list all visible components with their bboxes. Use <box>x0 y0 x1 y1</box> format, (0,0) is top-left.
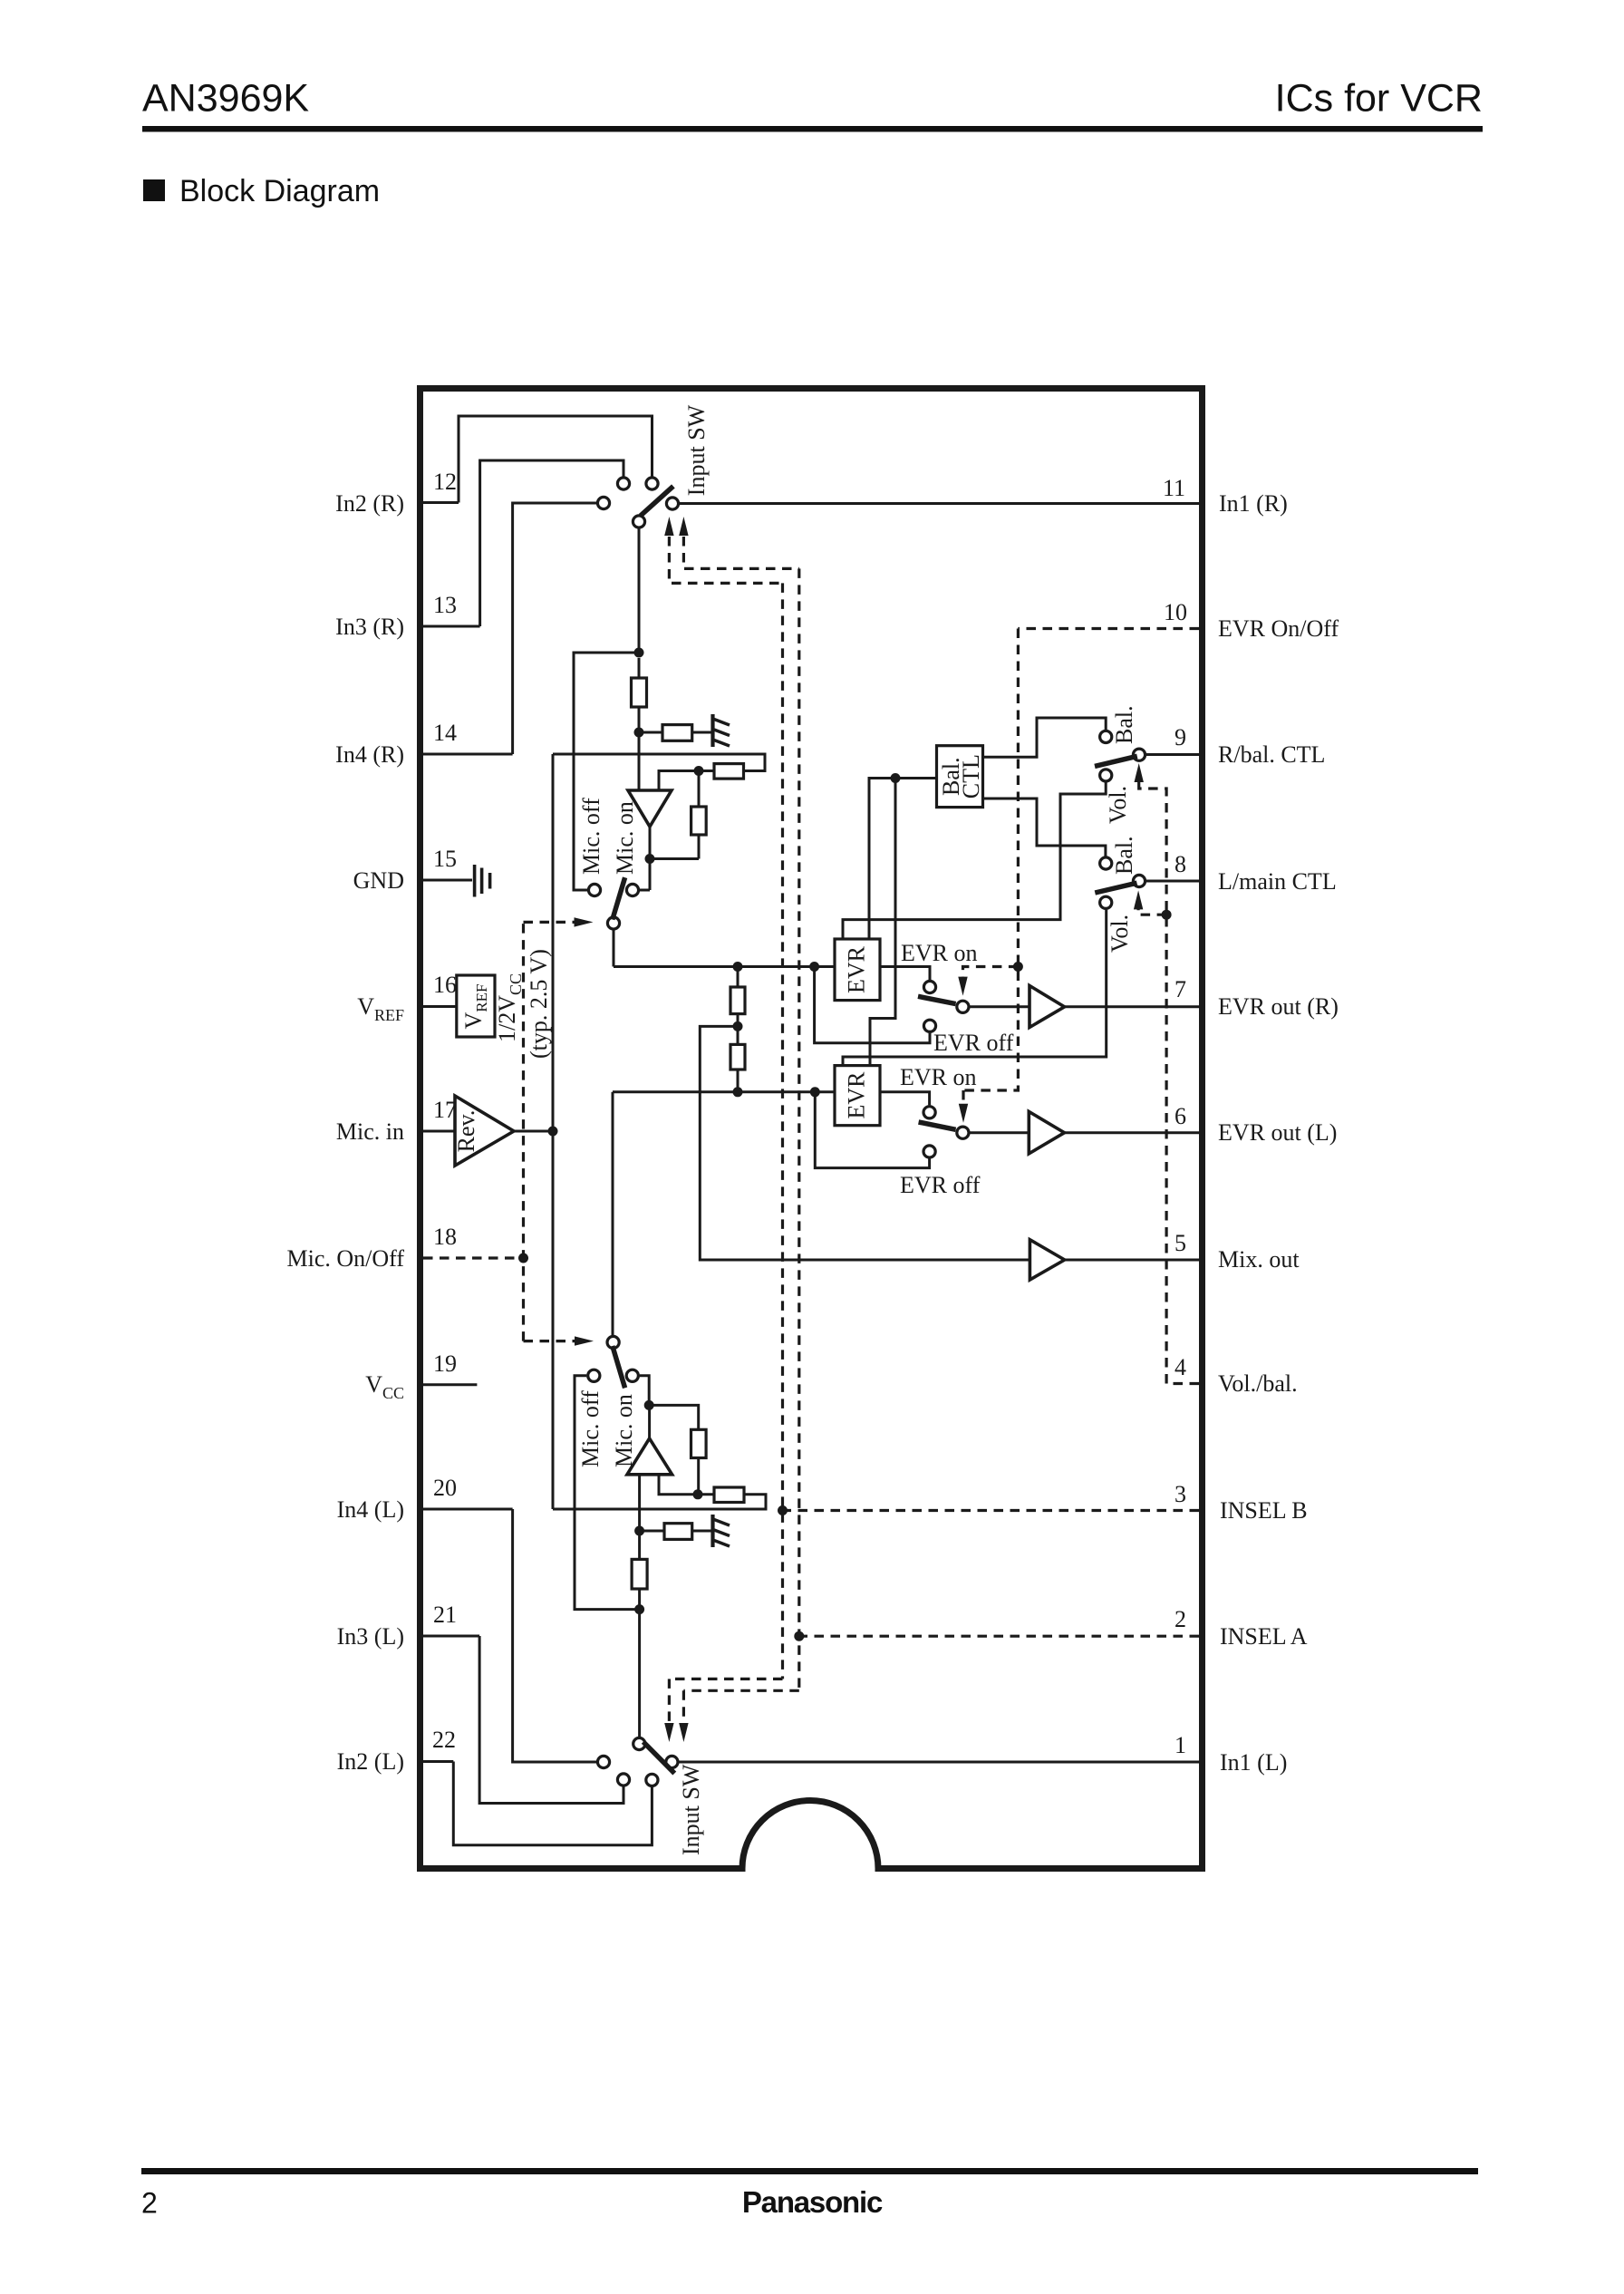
dashed INSEL control arrow B (lower) <box>668 1679 671 1723</box>
dashed INSEL control arrow A (upper) <box>683 537 798 568</box>
pin 8 L/main CTL wire <box>1146 880 1199 883</box>
wire EVR (R) output to switch <box>880 967 930 981</box>
wire node to feedback resistor lower <box>698 771 701 808</box>
svg-text:13: 13 <box>433 592 457 618</box>
arrowhead Vol/bal control pin9 <box>1135 763 1144 782</box>
svg-text:9: 9 <box>1174 724 1186 750</box>
svg-text:In4 (L): In4 (L) <box>337 1496 404 1523</box>
wire pin20 riser to lower input SW left contact <box>513 1509 596 1762</box>
resistor mic-L series input <box>632 1559 647 1589</box>
svg-text:6: 6 <box>1174 1103 1186 1129</box>
node Rev output junction <box>548 1127 558 1137</box>
svg-text:INSEL A: INSEL A <box>1220 1623 1308 1650</box>
wire resistor to ground (L) <box>692 1530 712 1533</box>
dashed INSEL B vertical bus <box>781 583 784 1679</box>
svg-text:L/main CTL: L/main CTL <box>1218 868 1337 895</box>
wire tap to ground resistor <box>639 731 662 734</box>
svg-text:20: 20 <box>433 1475 457 1501</box>
wire Bal.CTL upper output to pin9 Bal contact <box>983 718 1107 757</box>
pin 17 Mic.in stub wire <box>423 1130 455 1133</box>
Vol. rotated label (pin9) <box>1105 786 1131 824</box>
wire node to amp inverting input (L) <box>659 1475 698 1495</box>
L/main switch Vol contact <box>1100 896 1112 908</box>
node mic-R amp output <box>645 854 655 864</box>
node input bus / mic-R junction <box>634 648 644 658</box>
svg-text:Panasonic: Panasonic <box>742 2185 883 2219</box>
Mic.off rotated label (L) <box>577 1390 604 1467</box>
svg-text:16: 16 <box>433 972 457 998</box>
Mic.on rotated label (L) <box>611 1394 637 1467</box>
svg-text:EVR out (R): EVR out (R) <box>1218 993 1339 1020</box>
node pin18 dashed junction <box>518 1253 528 1263</box>
wire EVR switch (R) common to buffer <box>970 1005 1029 1008</box>
wire EVR (L) output to switch <box>880 1092 930 1106</box>
svg-text:EVR on: EVR on <box>900 1064 977 1090</box>
svg-text:EVR: EVR <box>844 1071 870 1119</box>
wire pin12 riser to input SW top-right contact <box>459 416 652 503</box>
wire pin14 riser to input SW left contact <box>513 503 596 754</box>
resistor mic-R series input <box>638 658 641 678</box>
wire In4 bus to mic-R feedback network <box>553 754 765 771</box>
wire EVR (L) input rail <box>613 1090 835 1093</box>
svg-text:VCC: VCC <box>365 1371 404 1402</box>
mic switch (R) lever <box>613 877 625 919</box>
pin 22 In2(L) stub wire <box>423 1760 453 1763</box>
Bal. rotated label (pin8) <box>1111 836 1137 875</box>
svg-text:3: 3 <box>1174 1481 1186 1507</box>
EVR switch (L) on contact <box>923 1107 935 1118</box>
svg-text:GND: GND <box>353 867 404 894</box>
node mix divider mid <box>733 1021 743 1031</box>
dashed Vol./bal. control bus <box>1139 781 1166 1384</box>
pin 5 Mix.out wire <box>1065 1259 1199 1262</box>
resistor mix divider lower <box>730 1044 745 1070</box>
Bal.CTL block <box>937 746 983 808</box>
svg-text:VREF: VREF <box>357 993 404 1024</box>
svg-text:EVR: EVR <box>844 945 870 993</box>
EVR switch (L) lever <box>919 1122 956 1129</box>
wire node to Mic.off branch <box>574 653 639 890</box>
svg-text:Mic. on: Mic. on <box>611 1394 637 1467</box>
wire EVR (R) top tab <box>843 782 1106 939</box>
pin 7 EVR out (R) wire <box>1065 1005 1199 1008</box>
node INSEL B junction <box>778 1505 788 1515</box>
pin 9 R/bal.CTL wire <box>1146 753 1199 756</box>
pin 14 In4(R) stub wire <box>423 753 513 756</box>
footer rule <box>141 2168 1478 2174</box>
node mic-L ground-resistor tap <box>634 1526 644 1536</box>
pin 3 INSEL B dashed wire <box>783 1509 1200 1512</box>
svg-text:4: 4 <box>1174 1354 1186 1380</box>
Mic.on rotated label (R) <box>612 801 638 875</box>
svg-text:14: 14 <box>433 720 457 746</box>
pin 19 VCC stub wire <box>423 1383 477 1386</box>
Rev. amp rotated text <box>453 1110 479 1153</box>
input SW (L) contact to pin20 <box>597 1756 609 1767</box>
wire Mic.off (L) branch <box>575 1376 640 1610</box>
wire EVR-off (R) bypass <box>815 967 930 1043</box>
EVR switch (L) common contact <box>957 1127 969 1138</box>
svg-text:In3 (L): In3 (L) <box>337 1623 404 1650</box>
VREF box rotated text <box>460 984 490 1030</box>
svg-text:R/bal. CTL: R/bal. CTL <box>1218 741 1325 768</box>
resistor mic-R feedback upper <box>714 764 744 779</box>
wire Mic.on (L) to amp output node <box>640 1376 649 1406</box>
mic switch (R) Mic.off contact <box>588 884 600 895</box>
dashed EVR control branch (L) <box>962 1090 964 1104</box>
svg-text:Bal.: Bal. <box>1111 705 1137 744</box>
Vol. rotated label (pin8) <box>1107 915 1133 953</box>
svg-text:EVR on: EVR on <box>901 940 978 966</box>
dashed mic control riser <box>522 922 525 1341</box>
pin 11 In1(R) wire from input SW common <box>680 502 1199 505</box>
EVR switch (R) on contact <box>923 981 935 992</box>
arrowhead mic control (L) <box>575 1336 594 1345</box>
EVR (R) rotated text <box>844 945 870 993</box>
arrowhead mic control (R) <box>575 917 594 926</box>
svg-text:15: 15 <box>433 846 457 872</box>
wire mic-L main input riser <box>638 1475 641 1560</box>
arrowhead EVR control (R) <box>958 977 967 996</box>
L/main switch Bal contact <box>1100 857 1112 869</box>
EVR switch (L) off contact <box>923 1146 935 1157</box>
pin 13 In3(R) stub wire <box>423 625 480 628</box>
svg-text:5: 5 <box>1174 1230 1186 1256</box>
mic switch (R) common contact <box>607 917 619 929</box>
wire resistor to ground <box>692 731 712 734</box>
input SW (L) common contact pin1 <box>666 1756 678 1767</box>
svg-text:Vol.: Vol. <box>1107 915 1133 953</box>
svg-text:2: 2 <box>1174 1606 1186 1632</box>
svg-text:2: 2 <box>141 2187 158 2220</box>
resistor mix divider upper <box>737 967 739 988</box>
svg-text:22: 22 <box>432 1727 456 1753</box>
IC package outline U1 with index notch <box>420 389 1203 1869</box>
svg-text:(typ. 2.5 V): (typ. 2.5 V) <box>526 949 552 1059</box>
pin 18 Mic.On/Off dashed stub <box>423 1256 524 1259</box>
R/bal switch Vol contact <box>1100 770 1112 781</box>
svg-text:Input SW: Input SW <box>683 404 710 496</box>
svg-text:EVR off: EVR off <box>900 1172 981 1198</box>
wire Bal.CTL lower output to pin8 Bal contact <box>983 799 1106 857</box>
rotated annotation (typ. 2.5 V) <box>526 949 552 1059</box>
wire In4 feed riser (vertical bus x=610) <box>552 754 555 1509</box>
svg-text:1/2VCC: 1/2VCC <box>494 973 525 1042</box>
op-amp Rev. microphone reverse amp <box>455 1096 514 1166</box>
svg-text:Input SW: Input SW <box>678 1764 704 1855</box>
resistor mic-L to ground <box>664 1524 692 1540</box>
Bal.CTL rotated text <box>938 754 984 799</box>
svg-text:In4 (R): In4 (R) <box>335 741 404 768</box>
wire pin22 riser to lower input SW contact <box>453 1762 652 1845</box>
dashed EVR control branch (R) <box>963 967 1019 978</box>
input SW (L) lever <box>643 1742 675 1774</box>
node mix divider top <box>733 962 743 972</box>
R/bal switch lever <box>1095 756 1137 766</box>
resistor mic-L feedback lower <box>691 1429 707 1457</box>
arrowhead INSEL A lower <box>679 1723 688 1742</box>
wire pin21 riser to lower input SW contact <box>479 1636 623 1804</box>
ground symbol mic-R <box>713 714 730 747</box>
svg-text:18: 18 <box>433 1224 457 1250</box>
svg-text:CTL: CTL <box>958 754 984 799</box>
mic switch (L) common contact <box>607 1336 619 1348</box>
node mic-L Mic.off junction <box>634 1604 644 1614</box>
wire EVR switch (L) common to buffer <box>970 1131 1029 1134</box>
EVR block (L channel) <box>835 1066 880 1126</box>
svg-text:Mic. off: Mic. off <box>578 798 604 875</box>
dashed mic control arrow (R) <box>524 921 575 924</box>
svg-text:Rev.: Rev. <box>453 1110 479 1153</box>
dashed mic control arrow (L) <box>524 1340 575 1342</box>
input SW (R) contact to pin13 <box>617 478 629 489</box>
ground symbol at pin 15 <box>475 865 490 897</box>
dashed INSEL A lower run <box>683 1689 798 1692</box>
node Bal.CTL rail / EVR(L) branch <box>891 773 901 783</box>
pin 2 INSEL A dashed wire <box>799 1635 1199 1638</box>
pin 20 In4(L) stub wire <box>423 1508 513 1511</box>
arrowhead EVR control (L) <box>959 1104 968 1123</box>
wire input SW pole down to mic node <box>638 529 641 653</box>
pin 16 VREF stub wire <box>423 1005 457 1008</box>
wire amp output down <box>649 827 652 890</box>
svg-text:Mic. on: Mic. on <box>612 801 638 875</box>
svg-text:Mix. out: Mix. out <box>1218 1246 1300 1273</box>
op-amp EVR out (R) buffer <box>1029 986 1065 1028</box>
wire EVR (R) input rail <box>614 965 835 968</box>
dashed INSEL control arrow A (lower) <box>682 1690 685 1723</box>
node INSEL A junction <box>794 1631 804 1641</box>
arrowhead INSEL A upper <box>679 517 688 536</box>
svg-text:EVR out (L): EVR out (L) <box>1218 1119 1337 1146</box>
node EVR-off (L) tap <box>810 1087 820 1097</box>
svg-text:11: 11 <box>1163 475 1185 501</box>
input SW (L) pole contact <box>633 1737 645 1749</box>
node mic-R ground-resistor tap <box>634 728 644 738</box>
svg-text:EVR On/Off: EVR On/Off <box>1218 615 1339 642</box>
input SW (R) contact to pin12 <box>646 478 658 489</box>
VREF regulator box 1/2 Vcc <box>457 975 495 1037</box>
wire branch down to EVR (L) top <box>870 779 895 1066</box>
L/main switch lever <box>1095 883 1136 893</box>
node mic-R feedback top <box>694 766 704 776</box>
svg-text:Mic. On/Off: Mic. On/Off <box>286 1245 404 1272</box>
svg-text:AN3969K: AN3969K <box>142 77 309 121</box>
pin 12 In2(R) stub wire <box>423 501 459 504</box>
svg-text:7: 7 <box>1174 976 1186 1002</box>
svg-text:Vol.: Vol. <box>1105 786 1131 824</box>
svg-text:In1 (R): In1 (R) <box>1219 490 1288 517</box>
svg-text:19: 19 <box>433 1350 457 1377</box>
svg-text:8: 8 <box>1174 851 1186 877</box>
svg-text:1: 1 <box>1174 1732 1186 1758</box>
svg-text:INSEL B: INSEL B <box>1220 1497 1308 1524</box>
EVR switch (R) common contact <box>957 1001 969 1012</box>
pin 10 EVR On/Off dashed wire <box>1018 627 1199 630</box>
input SW (R) pole contact <box>633 516 644 528</box>
svg-text:21: 21 <box>433 1602 457 1628</box>
input SW (R) lever <box>641 486 673 516</box>
svg-text:10: 10 <box>1164 599 1187 625</box>
arrowhead INSEL B upper <box>664 517 673 536</box>
wire mic-L common riser <box>612 1092 614 1335</box>
svg-text:In3 (R): In3 (R) <box>335 614 404 640</box>
wire In4 bus to mic-L feedback network <box>553 1495 766 1509</box>
svg-text:Mic. in: Mic. in <box>336 1118 404 1145</box>
dashed INSEL B lower run <box>669 1678 782 1680</box>
wire EVR (R) top to Bal.CTL rail <box>869 779 937 940</box>
L/main switch common contact pin8 <box>1133 875 1145 886</box>
node mic-L amp output <box>644 1400 654 1410</box>
pin 1 In1(L) wire from lower input SW common <box>679 1761 1199 1764</box>
EVR switch (R) lever <box>918 996 956 1003</box>
pin 6 EVR out (L) wire <box>1065 1131 1200 1134</box>
wire feedback resistor left (L) <box>698 1493 714 1495</box>
R/bal switch common contact pin9 <box>1133 749 1145 760</box>
input SW (R) rotated label <box>683 404 710 496</box>
EVR block (R channel) <box>835 939 880 1001</box>
op-amp mic amplifier (L) <box>627 1438 672 1475</box>
input SW (L) contact to pin22 <box>646 1774 658 1786</box>
wire feedback resistor to node <box>699 770 714 772</box>
wire amp (L) output up <box>648 1405 651 1438</box>
node EVR control branch (R) <box>1013 962 1023 972</box>
op-amp EVR out (L) buffer <box>1029 1111 1064 1154</box>
wire pin13 riser to input SW top-left contact <box>480 460 623 626</box>
input SW (R) contact to pin14 <box>597 497 609 508</box>
op-amp mix output buffer <box>1029 1240 1064 1280</box>
rotated annotation 1/2 Vcc <box>494 973 525 1042</box>
svg-text:In2 (R): In2 (R) <box>335 490 404 517</box>
R/bal switch Bal contact <box>1100 731 1112 742</box>
wire mix tap to mix amp <box>700 1026 1029 1260</box>
svg-text:Vol./bal.: Vol./bal. <box>1218 1370 1298 1397</box>
arrowhead Vol/bal control pin8 <box>1134 890 1143 909</box>
wire node to amp inverting input <box>659 771 699 791</box>
svg-text:In1 (L): In1 (L) <box>1220 1749 1287 1776</box>
resistor mic-L feedback horizontal <box>714 1487 744 1503</box>
resistor mic-R to ground <box>662 725 692 741</box>
section bullet square <box>143 179 165 201</box>
svg-text:Block Diagram: Block Diagram <box>179 174 380 208</box>
node mix divider bottom <box>733 1087 743 1097</box>
pin 4 Vol./bal. dashed stub <box>1166 1382 1199 1385</box>
Bal. rotated label (pin9) <box>1111 705 1137 744</box>
dashed INSEL control arrow B (upper) <box>669 537 782 583</box>
mic switch (L) Mic.on contact <box>626 1370 638 1381</box>
header rule <box>142 126 1483 132</box>
pin 21 In3(L) stub wire <box>423 1635 479 1638</box>
node Vol/bal control branch pin8 <box>1162 910 1172 920</box>
wire feedback bottom run <box>650 857 699 860</box>
mic switch (L) Mic.off contact <box>588 1370 600 1381</box>
resistor mic-R feedback lower <box>691 807 707 835</box>
wire amp output to Mic.on contact <box>640 889 650 892</box>
svg-text:Mic. off: Mic. off <box>577 1390 604 1467</box>
input SW (L) contact to pin21 <box>617 1774 629 1786</box>
svg-text:In2 (L): In2 (L) <box>337 1748 404 1775</box>
op-amp mic amplifier (R) <box>628 790 672 827</box>
pin 15 GND stub wire <box>423 879 472 882</box>
wire Rev amp output <box>514 1130 553 1133</box>
dashed Vol/bal control branch pin8 <box>1138 908 1166 915</box>
node EVR-off (R) tap <box>809 962 819 972</box>
dashed INSEL A vertical bus <box>797 568 800 1690</box>
EVR switch (R) off contact <box>923 1020 935 1031</box>
node mic-L feedback bottom <box>693 1489 703 1499</box>
svg-text:12: 12 <box>433 469 457 495</box>
svg-text:Bal.: Bal. <box>1111 836 1137 875</box>
mic switch (L) lever <box>613 1346 625 1388</box>
mic switch (R) Mic.on contact <box>626 884 638 895</box>
Mic.off rotated label (R) <box>578 798 604 875</box>
input SW (R) common contact pin11 <box>666 498 678 509</box>
svg-text:ICs for VCR: ICs for VCR <box>1275 77 1483 121</box>
wire EVR-off (L) bypass <box>815 1092 929 1168</box>
wire mic-R common to EVR rail <box>613 931 615 967</box>
EVR (L) rotated text <box>844 1071 870 1119</box>
input SW (L) rotated label <box>678 1764 704 1855</box>
svg-text:EVR off: EVR off <box>933 1030 1014 1056</box>
dashed EVR On/Off control bus <box>963 629 1018 1091</box>
ground symbol mic-L <box>713 1515 730 1547</box>
wire tap to ground resistor (L) <box>640 1530 664 1533</box>
wire EVR (L) top tab <box>843 910 1107 1066</box>
wire feedback top run (L) <box>649 1405 699 1429</box>
arrowhead INSEL B lower <box>664 1723 673 1742</box>
